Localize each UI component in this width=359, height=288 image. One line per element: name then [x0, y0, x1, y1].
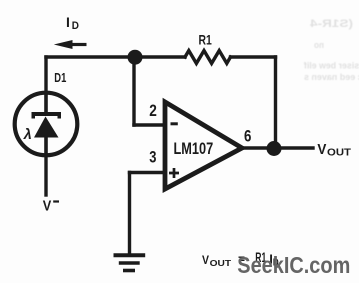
svg-text:no: no — [314, 40, 324, 50]
svg-text:(S1R-4: (S1R-4 — [309, 18, 353, 30]
svg-text:3: 3 — [149, 149, 156, 167]
svg-text:I: I — [66, 14, 70, 30]
svg-text:tnorr c eed naven s: tnorr c eed naven s — [304, 72, 359, 83]
svg-text:LM107: LM107 — [174, 139, 214, 158]
svg-text:D1: D1 — [54, 70, 66, 85]
svg-text:6: 6 — [244, 127, 251, 145]
svg-text:ecnatsiser bew elif: ecnatsiser bew elif — [303, 61, 359, 72]
svg-text:λ: λ — [23, 127, 32, 143]
svg-text:OUT: OUT — [327, 148, 352, 159]
svg-text:V: V — [43, 198, 52, 215]
svg-text:R1: R1 — [199, 31, 212, 47]
svg-text:2: 2 — [149, 102, 157, 120]
svg-text:V: V — [317, 141, 326, 158]
svg-text:OUT: OUT — [210, 258, 232, 268]
svg-text:V: V — [202, 255, 209, 267]
svg-text:D: D — [72, 20, 79, 32]
svg-text:SeekIC.com: SeekIC.com — [237, 252, 350, 278]
